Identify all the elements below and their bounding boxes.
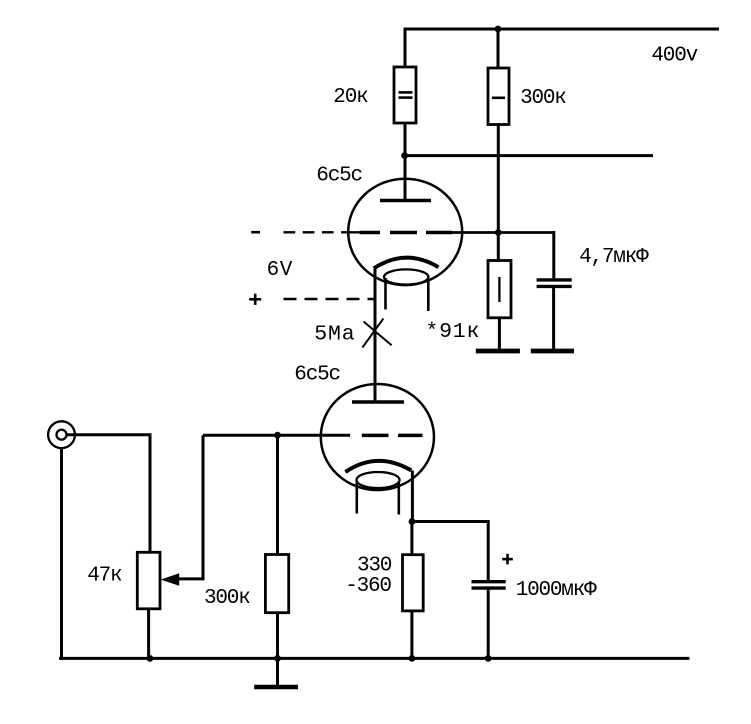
node anode junction <box>401 152 408 159</box>
wiper arrowhead <box>161 573 180 585</box>
grid dashes U2 <box>362 434 423 438</box>
ground bar under 4.7uF <box>531 349 574 354</box>
potentiometer R 47k body <box>137 552 160 609</box>
svg-text:4,7мкФ: 4,7мкФ <box>579 246 649 269</box>
wire cathode U1 down to anode of U2 <box>374 268 377 402</box>
svg-text:-360: -360 <box>345 575 391 598</box>
wire bottom rail <box>59 657 690 660</box>
node junction top rail <box>495 26 502 33</box>
svg-text:*91к: *91к <box>425 320 480 344</box>
resistor R 91k <box>488 233 511 349</box>
label plus sign <box>249 294 261 305</box>
svg-text:20к: 20к <box>333 86 368 109</box>
cathode arc U1 <box>374 258 439 269</box>
wire input to pot top <box>67 435 151 553</box>
svg-text:300к: 300к <box>204 587 250 610</box>
wire cathode to cap <box>412 522 488 581</box>
ground bar under 91k <box>476 349 520 354</box>
svg-text:5Ма: 5Ма <box>314 322 355 346</box>
ground bar main <box>254 685 298 690</box>
wire grid right solid <box>452 231 554 234</box>
grid dashes U1 <box>360 231 453 235</box>
cathode arc U2 <box>345 461 411 472</box>
node rail 300k <box>274 655 281 662</box>
resistor R 300k top <box>488 68 509 125</box>
svg-text:6V: 6V <box>267 259 293 282</box>
anode plate U1 <box>380 199 431 202</box>
input terminal inner <box>57 430 67 440</box>
svg-text:6с5с: 6с5с <box>294 363 340 386</box>
plus sign at 1000uF <box>502 554 513 565</box>
svg-text:47к: 47к <box>87 565 122 588</box>
dashed line plus to cathode <box>284 298 376 300</box>
wire top 400V rail <box>405 28 719 31</box>
label minus sign <box>251 231 260 234</box>
heater stub right U1 <box>427 279 430 312</box>
tube U2 envelope 6s5s bottom <box>321 384 434 490</box>
heater stub right U2 <box>397 482 400 515</box>
op tube U1 envelope 6s5s top <box>348 179 462 285</box>
capacitor C 1000uF <box>472 582 506 659</box>
svg-text:300к: 300к <box>520 87 566 110</box>
resistor R 20k <box>394 67 416 123</box>
wire 300k bottom lead crossing output line down to grid node <box>497 125 500 233</box>
wire cathode U2 down <box>411 471 414 522</box>
wire 20k bottom lead to anode <box>404 123 407 200</box>
node rail 330 <box>409 655 416 662</box>
wiper wire and riser <box>178 435 203 579</box>
wire pot bottom lead <box>147 609 150 659</box>
heater stub left U1 <box>384 278 387 310</box>
heater stub left U2 <box>355 481 358 514</box>
wire output line <box>405 154 653 157</box>
resistor R 330-360 <box>403 522 424 659</box>
capacitor C 4.7uF <box>537 231 572 349</box>
resistor R 300k bottom <box>265 435 288 658</box>
input terminal outer <box>48 421 75 448</box>
svg-text:330: 330 <box>357 554 392 577</box>
wire 20k top lead <box>404 28 407 68</box>
node grid wire junction <box>274 432 281 439</box>
dashed line minus to grid <box>284 231 361 233</box>
svg-text:400v: 400v <box>651 45 697 68</box>
node rail 1000uF <box>485 655 492 662</box>
node grid junction <box>495 229 502 236</box>
anode plate U2 <box>352 400 404 403</box>
wire grid U2 left <box>203 434 350 437</box>
heater ellipse U2 <box>356 472 399 488</box>
wire input down left side <box>60 448 63 660</box>
svg-text:1000мкФ: 1000мкФ <box>516 579 597 602</box>
svg-text:6с5с: 6с5с <box>316 164 362 187</box>
X measure mark 5mA <box>362 319 391 348</box>
node cathode junction <box>409 518 416 525</box>
ground lead <box>276 658 279 685</box>
heater ellipse U1 <box>384 269 428 284</box>
node rail pot <box>147 655 154 662</box>
wire 300k top lead <box>497 28 500 69</box>
